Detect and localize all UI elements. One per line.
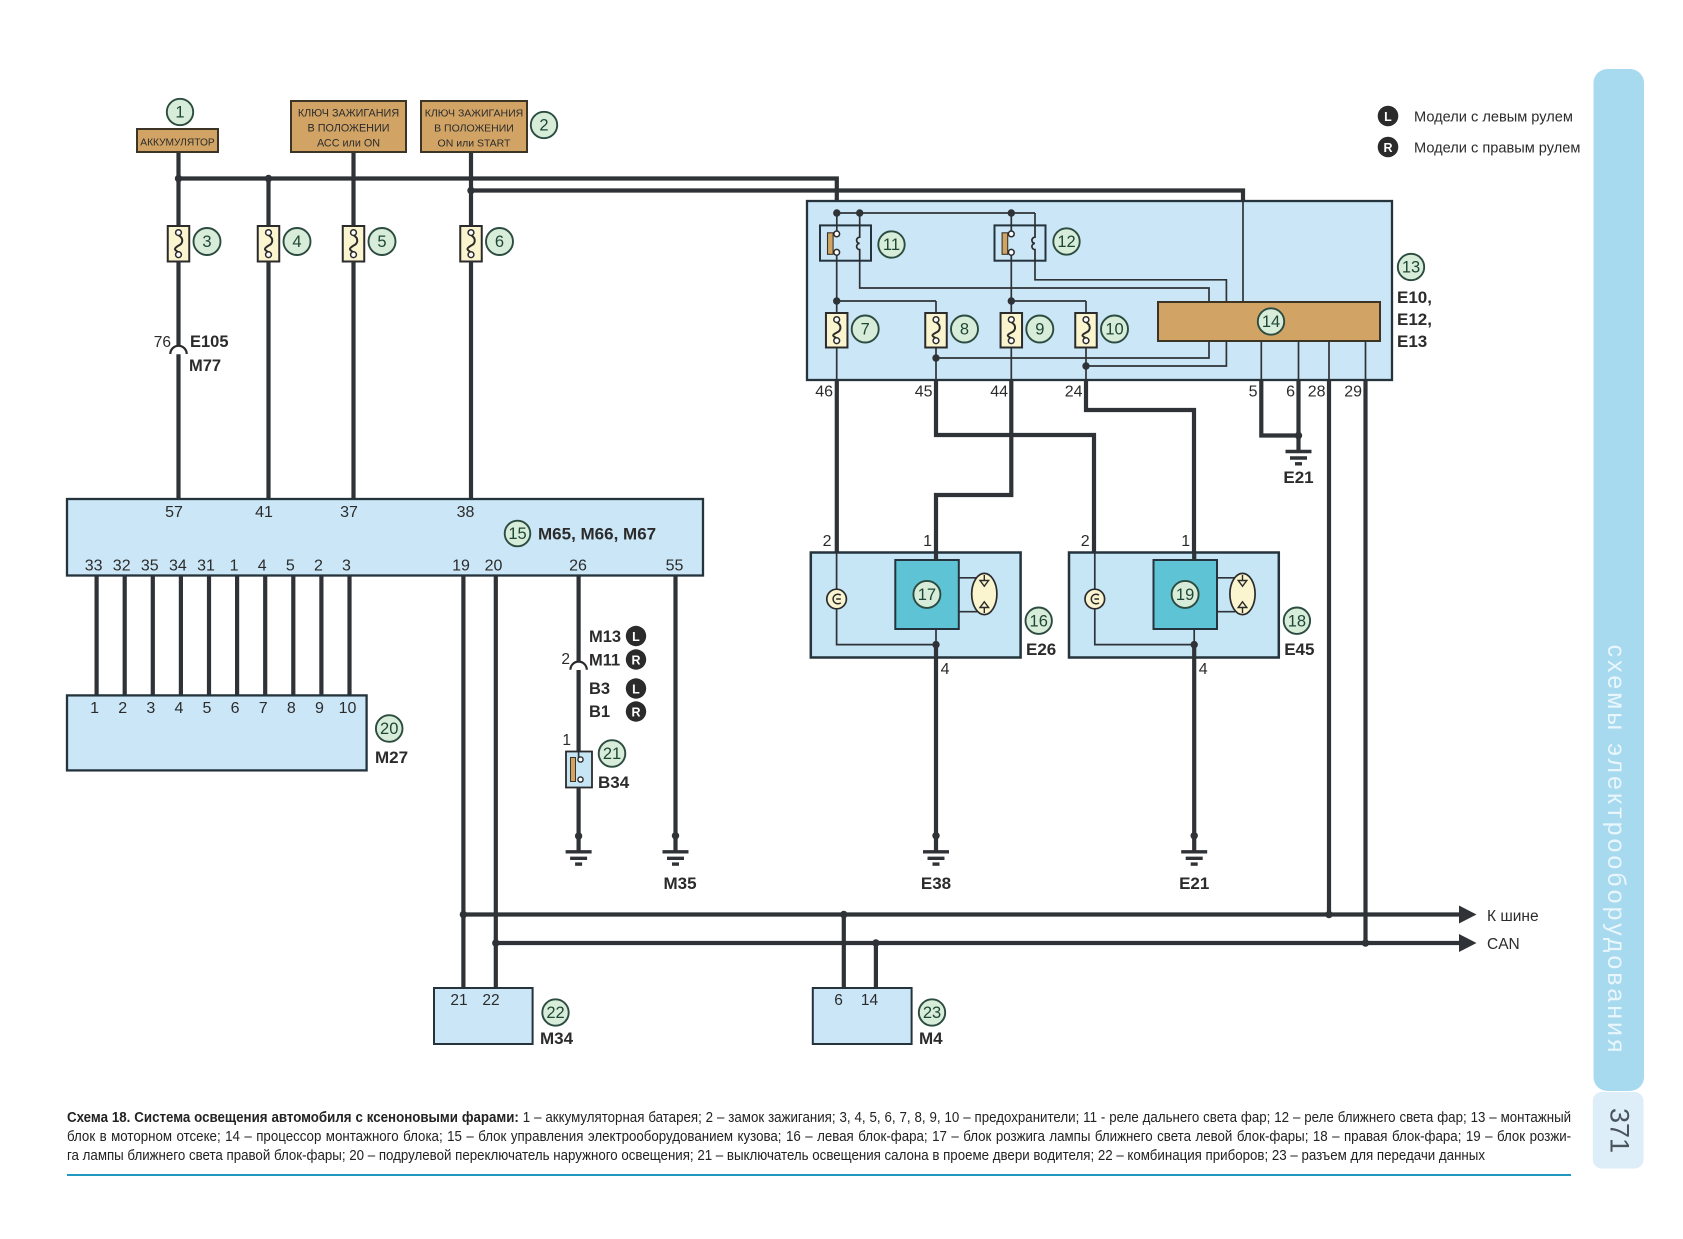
svg-text:1: 1 <box>230 558 239 575</box>
label circle 3 <box>194 228 221 255</box>
svg-text:E38: E38 <box>921 874 951 893</box>
fuse 5 <box>343 226 365 262</box>
svg-text:55: 55 <box>666 558 684 575</box>
svg-text:14: 14 <box>861 992 879 1009</box>
svg-text:B34: B34 <box>598 773 630 792</box>
wire processor pin29 drop <box>1365 341 1367 380</box>
svg-text:схемы электрооборудования: схемы электрооборудования <box>1602 644 1630 1055</box>
svg-text:41: 41 <box>255 504 273 521</box>
svg-text:31: 31 <box>197 558 215 575</box>
svg-text:6: 6 <box>495 233 504 251</box>
wire M4 pin14 to bus2 <box>874 943 878 988</box>
wire block15 pin 32 to block20 <box>123 576 127 697</box>
svg-text:2: 2 <box>1081 533 1090 550</box>
svg-text:19: 19 <box>452 558 470 575</box>
svg-text:2: 2 <box>314 558 323 575</box>
svg-text:M34: M34 <box>540 1029 574 1048</box>
ground E38 <box>923 852 949 864</box>
svg-text:4: 4 <box>941 661 950 678</box>
wire fuse4 to block 15 pin 41 <box>266 262 270 501</box>
label circle 12 <box>1053 228 1079 254</box>
svg-text:E105: E105 <box>190 333 229 351</box>
wire block15 pin 31 to block20 <box>207 576 211 697</box>
component 17 xenon igniter module <box>895 560 959 629</box>
wire bus1 battery + <box>179 179 837 214</box>
label circle 18 <box>1284 608 1310 634</box>
svg-text:Модели с правым рулем: Модели с правым рулем <box>1414 141 1580 157</box>
wire pin29 to CAN bus2 <box>1363 380 1367 943</box>
component 14 fuse box processor <box>1158 302 1380 341</box>
caption rule <box>67 1174 1571 1177</box>
junction fuse10 out <box>1082 362 1089 369</box>
wire fuse10 to pin24 <box>1085 348 1087 381</box>
junction B34 ground <box>575 832 582 839</box>
wire ignition ON/START drop <box>469 152 473 227</box>
xenon lamp <box>1230 573 1255 614</box>
component 2b ignition key ON/START <box>421 101 527 152</box>
label circle 14 <box>1258 308 1284 334</box>
svg-text:3: 3 <box>342 558 351 575</box>
svg-text:АСС или ON: АСС или ON <box>317 138 380 150</box>
wire relay12 contact to fuses 9,10 <box>1010 255 1012 313</box>
wire fuse8 to pin45 <box>935 348 937 381</box>
svg-text:M35: M35 <box>663 874 696 893</box>
svg-text:7: 7 <box>861 321 870 339</box>
ground M35 <box>663 852 689 864</box>
label circle 21 <box>599 740 626 767</box>
wire block15 pin 2 to block20 <box>319 576 323 697</box>
svg-text:E21: E21 <box>1283 468 1313 487</box>
wire relay11 contact to fuses 7,8 <box>836 255 838 313</box>
svg-text:2: 2 <box>539 117 548 135</box>
junction bus2 pin29 <box>1362 939 1369 946</box>
svg-text:B1: B1 <box>589 703 610 721</box>
wire pin19 to CAN bus1 and block22 pin21 <box>461 576 465 989</box>
wire relay11 pins up <box>859 213 861 226</box>
wire fuse5 to block 15 pin 37 <box>351 262 355 501</box>
svg-text:9: 9 <box>315 700 324 717</box>
wire fuse3 drop <box>176 179 180 228</box>
svg-text:2: 2 <box>561 651 570 668</box>
wire ON/START feed to processor 14 <box>1242 202 1244 303</box>
svg-text:28: 28 <box>1308 384 1326 401</box>
wire connector to block 15 pin 57 <box>176 354 180 500</box>
junction relay12 contact <box>1008 209 1015 216</box>
svg-text:M77: M77 <box>189 357 221 375</box>
svg-text:E10,: E10, <box>1397 288 1432 307</box>
svg-text:К шине: К шине <box>1487 908 1539 925</box>
wire fuse4 drop <box>266 179 270 228</box>
component 19 xenon igniter module <box>1154 560 1218 629</box>
wire CAN bus1 K shine <box>463 912 1461 916</box>
svg-text:5: 5 <box>377 233 386 251</box>
label circle 22 <box>542 999 568 1025</box>
wire block15 pin 5 to block20 <box>291 576 295 697</box>
wire relay11 coil return wrap <box>860 261 1209 358</box>
svg-text:12: 12 <box>1057 233 1075 251</box>
label circle 9 <box>1026 316 1053 343</box>
wire pin6 to ground E21 <box>1296 380 1300 452</box>
wire block15 pin 1 to block20 <box>235 576 239 697</box>
svg-text:20: 20 <box>485 558 503 575</box>
svg-text:38: 38 <box>457 504 475 521</box>
wire pin1 to igniter <box>1192 553 1196 562</box>
wire block15 pin 34 to block20 <box>179 576 183 697</box>
svg-text:ON или START: ON или START <box>438 138 511 150</box>
junction battery/relay11 contact <box>833 209 840 216</box>
svg-text:26: 26 <box>569 558 587 575</box>
wire pin1 to igniter <box>934 553 938 562</box>
label circle 1 <box>167 99 193 125</box>
svg-text:4: 4 <box>258 558 267 575</box>
junction bus1 M4 pin6 <box>840 911 847 918</box>
label circle 23 <box>919 999 945 1025</box>
junction pin4 <box>1191 641 1198 648</box>
block 13 engine-bay fuse box E10,E12,E13 <box>807 201 1392 380</box>
junction bus2 pin20 <box>492 939 499 946</box>
wire block15 pin 33 to block20 <box>94 576 98 697</box>
junction bus2 M4 pin14 <box>872 939 879 946</box>
junction bus2/fuse6 <box>467 187 474 194</box>
svg-text:В ПОЛОЖЕНИИ: В ПОЛОЖЕНИИ <box>434 123 514 135</box>
wire pin26 lower segment to switch B34 <box>576 670 580 752</box>
label circle 7 <box>852 316 879 343</box>
fuse 8 <box>925 313 947 348</box>
legend marker R <box>1378 137 1399 158</box>
marker L left-hand-drive <box>626 626 646 646</box>
junction relay12 out <box>1008 297 1015 304</box>
svg-text:16: 16 <box>1030 612 1048 630</box>
svg-text:M65, M66, M67: M65, M66, M67 <box>538 525 656 544</box>
svg-text:11: 11 <box>883 236 900 254</box>
block 23 data link connector M4 <box>813 988 912 1044</box>
component 1 battery АККУМУЛЯТОР <box>137 129 218 152</box>
svg-text:20: 20 <box>380 720 398 738</box>
arrow CAN bus2 <box>1459 934 1477 952</box>
wire fuse9 to pin44 <box>1010 348 1012 381</box>
wire fuse7 to pin46 <box>836 348 838 381</box>
svg-text:45: 45 <box>915 384 933 401</box>
arrow CAN bus1 <box>1459 906 1477 924</box>
svg-text:M11: M11 <box>589 652 620 670</box>
label circle 11 <box>878 231 904 257</box>
block 18 headlamp E45 <box>1069 553 1279 658</box>
svg-text:21: 21 <box>603 745 621 763</box>
connector 2 M13/M11/B3/B1 <box>570 662 586 670</box>
svg-text:R: R <box>1383 141 1392 155</box>
label circle 16 <box>1026 608 1052 634</box>
svg-text:4: 4 <box>1199 661 1208 678</box>
svg-text:34: 34 <box>169 558 187 575</box>
wire processor pin6 drop <box>1298 341 1300 380</box>
svg-text:32: 32 <box>113 558 131 575</box>
junction bus1/fuse4 <box>265 175 272 182</box>
svg-text:17: 17 <box>918 586 936 604</box>
svg-text:R: R <box>631 654 640 668</box>
wire fuse3 to connector E105 <box>176 262 180 347</box>
wire B34 to ground <box>576 788 580 852</box>
svg-text:E13: E13 <box>1397 332 1427 351</box>
svg-text:5: 5 <box>286 558 295 575</box>
label circle 17 <box>913 581 940 608</box>
svg-text:57: 57 <box>165 504 183 521</box>
svg-text:8: 8 <box>287 700 296 717</box>
junction fuse8 out <box>932 354 939 361</box>
junction E21 <box>1191 832 1198 839</box>
wire processor pin5 drop <box>1260 341 1262 380</box>
wire igniter to pin4 <box>935 629 937 645</box>
wire igniter to pin4 <box>1193 629 1195 645</box>
caption line 1 <box>67 1109 1571 1165</box>
svg-text:24: 24 <box>1065 384 1083 401</box>
wire relay12 coil return wrap <box>1035 261 1226 366</box>
block 16 headlamp E26 <box>811 553 1021 658</box>
svg-text:Модели с левым рулем: Модели с левым рулем <box>1414 110 1573 126</box>
wire block15 pin 3 to block20 <box>347 576 351 697</box>
svg-text:6: 6 <box>1286 384 1295 401</box>
fuse 9 <box>1001 313 1023 348</box>
svg-text:3: 3 <box>202 233 211 251</box>
marker R right-hand-drive <box>626 701 646 721</box>
svg-text:E26: E26 <box>1026 640 1056 659</box>
wire block15 pin 4 to block20 <box>263 576 267 697</box>
relay 11 <box>820 225 871 260</box>
svg-text:CAN: CAN <box>1487 936 1520 953</box>
junction E38 <box>932 832 939 839</box>
svg-text:44: 44 <box>990 384 1008 401</box>
svg-text:7: 7 <box>259 700 268 717</box>
wire igniter to xenon lamp <box>959 577 977 579</box>
svg-text:L: L <box>632 683 640 697</box>
ground E21 upper <box>1286 452 1312 464</box>
label circle 20 <box>376 715 403 742</box>
node battery feed wire <box>176 152 180 179</box>
junction bus1 pin19 <box>460 911 467 918</box>
svg-text:5: 5 <box>1249 384 1258 401</box>
svg-text:1: 1 <box>562 732 571 749</box>
wire CAN bus2 <box>496 941 1461 945</box>
fuse 3 <box>168 226 190 262</box>
svg-text:9: 9 <box>1035 321 1044 339</box>
ground below B34 <box>566 852 592 864</box>
label circle 8 <box>951 316 978 343</box>
component 2a ignition key ACC/ON <box>291 101 406 152</box>
svg-text:371: 371 <box>1605 1108 1635 1153</box>
wire igniter to xenon lamp <box>1217 577 1235 579</box>
svg-text:46: 46 <box>815 384 833 401</box>
wire headlamp16 pin4 to ground E38 <box>934 658 938 852</box>
wire pin45 to headlamp18 pin2 <box>936 380 1094 553</box>
fuse 10 <box>1075 313 1097 348</box>
label circle 15 <box>505 521 531 547</box>
svg-text:76: 76 <box>154 334 171 351</box>
wire bulb to pin4 <box>837 609 936 645</box>
wire battery feed inside box13 <box>837 212 1035 214</box>
svg-text:4: 4 <box>174 700 183 717</box>
svg-text:14: 14 <box>1262 313 1280 331</box>
wire bulb to pin4 <box>1095 609 1194 645</box>
label circle 5 <box>369 228 396 255</box>
bulb position lamp <box>836 553 838 591</box>
wire headlamp18 pin4 to ground E21 <box>1192 658 1196 852</box>
connector E105/M77 pin 76 <box>170 346 186 354</box>
svg-text:23: 23 <box>923 1004 941 1022</box>
svg-text:E21: E21 <box>1179 874 1209 893</box>
svg-text:13: 13 <box>1402 259 1420 277</box>
wire pin26 upper segment <box>576 576 580 662</box>
svg-text:22: 22 <box>482 992 499 1009</box>
junction bus1/fuse3 <box>175 175 182 182</box>
wire bus2 ON/START <box>471 191 1243 204</box>
block 20 light switch M27 <box>67 695 367 770</box>
svg-text:L: L <box>1384 110 1392 124</box>
svg-text:18: 18 <box>1288 612 1306 630</box>
xenon lamp <box>972 573 997 614</box>
wire pin55 to ground M35 <box>673 576 677 852</box>
label circle 10 <box>1101 316 1128 343</box>
svg-text:2: 2 <box>823 533 832 550</box>
svg-text:10: 10 <box>339 700 357 717</box>
junction relay11 out <box>833 297 840 304</box>
svg-text:2: 2 <box>118 700 127 717</box>
block 22 instrument cluster M34 <box>434 988 533 1044</box>
svg-text:M13: M13 <box>589 628 621 646</box>
wire pin20 to CAN bus2 and block22 pin22 <box>494 576 498 989</box>
wire M4 pin6 to bus1 <box>842 915 846 989</box>
svg-text:10: 10 <box>1105 321 1123 339</box>
wire processor pin28 drop <box>1328 341 1330 380</box>
svg-text:37: 37 <box>340 504 358 521</box>
svg-text:E12,: E12, <box>1397 310 1432 329</box>
svg-text:R: R <box>631 706 640 720</box>
svg-text:3: 3 <box>146 700 155 717</box>
svg-text:1: 1 <box>923 533 932 550</box>
svg-text:КЛЮЧ ЗАЖИГАНИЯ: КЛЮЧ ЗАЖИГАНИЯ <box>425 108 523 120</box>
fuse 7 <box>826 313 848 348</box>
svg-text:АККУМУЛЯТОР: АККУМУЛЯТОР <box>140 137 215 148</box>
label circle 4 <box>284 228 311 255</box>
caption line 2 <box>67 1128 1571 1147</box>
svg-text:15: 15 <box>508 525 526 543</box>
svg-text:5: 5 <box>203 700 212 717</box>
svg-text:22: 22 <box>546 1004 564 1022</box>
svg-text:29: 29 <box>1344 384 1362 401</box>
svg-text:4: 4 <box>292 233 301 251</box>
svg-text:35: 35 <box>141 558 159 575</box>
wire pin46 to headlamp16 pin2 <box>835 380 839 553</box>
fuse 4 <box>258 226 280 262</box>
svg-text:8: 8 <box>960 321 969 339</box>
wire ignition ACC drop <box>351 152 355 227</box>
sidebar tab <box>1594 69 1645 1091</box>
junction bus1 pin28 <box>1325 911 1332 918</box>
svg-text:1: 1 <box>90 700 99 717</box>
caption line 3 <box>67 1147 1571 1166</box>
legend marker L <box>1378 106 1399 127</box>
svg-text:21: 21 <box>450 992 467 1009</box>
junction pin5/pin6 <box>1295 432 1302 439</box>
svg-text:6: 6 <box>231 700 240 717</box>
wire pin44 to headlamp16 pin1 <box>936 380 1011 553</box>
bulb position lamp <box>1094 553 1096 591</box>
svg-text:6: 6 <box>834 992 843 1009</box>
svg-text:В ПОЛОЖЕНИИ: В ПОЛОЖЕНИИ <box>308 123 390 135</box>
svg-text:19: 19 <box>1176 586 1194 604</box>
junction pin4 <box>932 641 939 648</box>
svg-text:33: 33 <box>85 558 103 575</box>
svg-text:1: 1 <box>1181 533 1190 550</box>
junction relay11 coil <box>856 209 863 216</box>
svg-text:L: L <box>632 630 640 644</box>
svg-text:M4: M4 <box>919 1029 943 1048</box>
ground E21 lower <box>1181 852 1207 864</box>
svg-text:E45: E45 <box>1284 640 1314 659</box>
block 15 body electrical control M65,M66,M67 <box>67 499 703 576</box>
fuse 6 <box>460 226 482 262</box>
label circle 2 <box>531 112 557 138</box>
wire pin24 to headlamp18 pin1 <box>1086 380 1194 553</box>
wire pin28 to CAN bus1 <box>1327 380 1331 915</box>
label circle 13 <box>1398 254 1424 280</box>
label circle 19 <box>1172 581 1199 608</box>
relay 12 <box>995 225 1046 260</box>
marker R right-hand-drive <box>626 649 646 669</box>
junction M35 ground <box>672 832 679 839</box>
wire fuse6 to block 15 pin 38 <box>469 262 473 501</box>
page number tab <box>1593 1092 1644 1169</box>
marker L left-hand-drive <box>626 678 646 698</box>
wire pin5 to ground E21 <box>1261 380 1298 436</box>
label circle 6 <box>486 228 513 255</box>
svg-text:M27: M27 <box>375 748 408 767</box>
wire block15 pin 35 to block20 <box>151 576 155 697</box>
svg-text:КЛЮЧ ЗАЖИГАНИЯ: КЛЮЧ ЗАЖИГАНИЯ <box>298 108 399 120</box>
svg-text:1: 1 <box>175 104 184 122</box>
svg-text:B3: B3 <box>589 680 610 698</box>
